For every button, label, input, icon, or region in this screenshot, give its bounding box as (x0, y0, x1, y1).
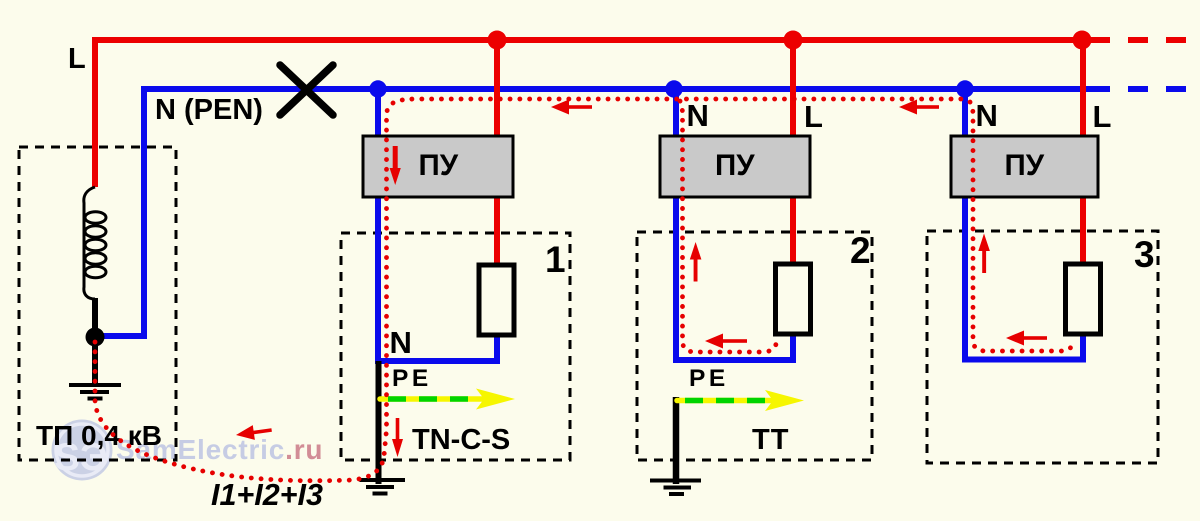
wire N drop unit2 (676, 89, 793, 360)
red arrow up unit2 (690, 242, 702, 282)
red arrow left on N bus before unit3 (899, 100, 939, 115)
wire L drop unit1 (494, 40, 500, 267)
PE conductor unit1 (376, 361, 382, 484)
PE green-yellow arrow unit1 (380, 389, 515, 410)
svg-text:PE: PE (392, 365, 432, 392)
load resistor R1 (479, 265, 514, 335)
junction node L1 (488, 31, 507, 50)
wire N drop unit1 (378, 89, 497, 361)
ground unit1 (360, 480, 406, 494)
junction node N3 (956, 80, 973, 97)
meter unit U1 (363, 136, 513, 197)
red arrow down unit1 TN-C-S (392, 418, 403, 457)
red arrow up unit3 (978, 234, 990, 274)
fault current dotted path main I1+I2+I3 (95, 99, 964, 481)
watermark SamElectric logo (52, 420, 113, 481)
transformer ground (69, 385, 121, 399)
fault current dotted path unit2 (680, 101, 776, 352)
fault current dotted path unit3 (970, 102, 1073, 351)
svg-text:1: 1 (545, 239, 566, 280)
dashed box 3 (927, 231, 1158, 463)
svg-text:TT: TT (752, 424, 789, 456)
svg-text:PE: PE (689, 365, 729, 392)
wire N drop unit3 (965, 89, 1083, 360)
svg-text:I1+I2+I3: I1+I2+I3 (211, 478, 323, 512)
svg-text:2: 2 (850, 230, 871, 271)
red arrow left unit2 (705, 334, 747, 349)
red arrow down inside U1 (390, 146, 401, 185)
transformer coil (84, 187, 106, 299)
svg-text:3: 3 (1134, 234, 1155, 275)
PE green-yellow arrow unit2 (677, 390, 804, 411)
wire L dashed continuation (1128, 37, 1186, 43)
transformer neutral node (86, 328, 105, 347)
svg-text:L: L (804, 99, 823, 134)
junction node N1 (369, 80, 386, 97)
svg-text:ТП 0,4 кВ: ТП 0,4 кВ (36, 420, 162, 451)
wire N dashed continuation (1128, 86, 1186, 92)
ground unit2 (650, 481, 701, 495)
svg-text:ПУ: ПУ (419, 149, 459, 182)
break X on PEN (280, 65, 333, 115)
svg-text:N: N (976, 98, 998, 133)
svg-text:N: N (390, 325, 412, 360)
wire L drop unit2 (790, 40, 796, 267)
red arrow left on N bus between unit1 and unit2 (551, 100, 592, 115)
dashed box 1 TN-C-S (341, 233, 570, 460)
svg-text:L: L (68, 43, 86, 75)
dashed box transformer TП (19, 147, 176, 460)
red arrow left unit3 (1006, 331, 1047, 346)
junction node L3 (1073, 31, 1092, 50)
load resistor R3 (1066, 264, 1101, 334)
svg-text:N (PEN): N (PEN) (155, 94, 263, 126)
svg-text:ПУ: ПУ (1005, 149, 1045, 182)
PE conductor unit2 (673, 397, 680, 484)
wire L red bus (95, 40, 1110, 187)
svg-text:N: N (687, 98, 709, 133)
wire L drop unit3 (1080, 40, 1086, 267)
svg-text:ПУ: ПУ (715, 149, 755, 182)
junction node L2 (784, 31, 803, 50)
dashed box 2 TT (637, 232, 872, 460)
red arrow left near transformer ground (235, 423, 273, 443)
transformer neutral lead wire (92, 298, 98, 385)
junction node N2 (665, 80, 682, 97)
svg-text:L: L (1093, 99, 1112, 134)
load resistor R2 (776, 264, 811, 334)
meter unit U2 (660, 136, 810, 197)
wire N PEN blue bus (100, 89, 1110, 336)
meter unit U3 (951, 136, 1098, 197)
svg-text:TN-C-S: TN-C-S (412, 424, 510, 456)
